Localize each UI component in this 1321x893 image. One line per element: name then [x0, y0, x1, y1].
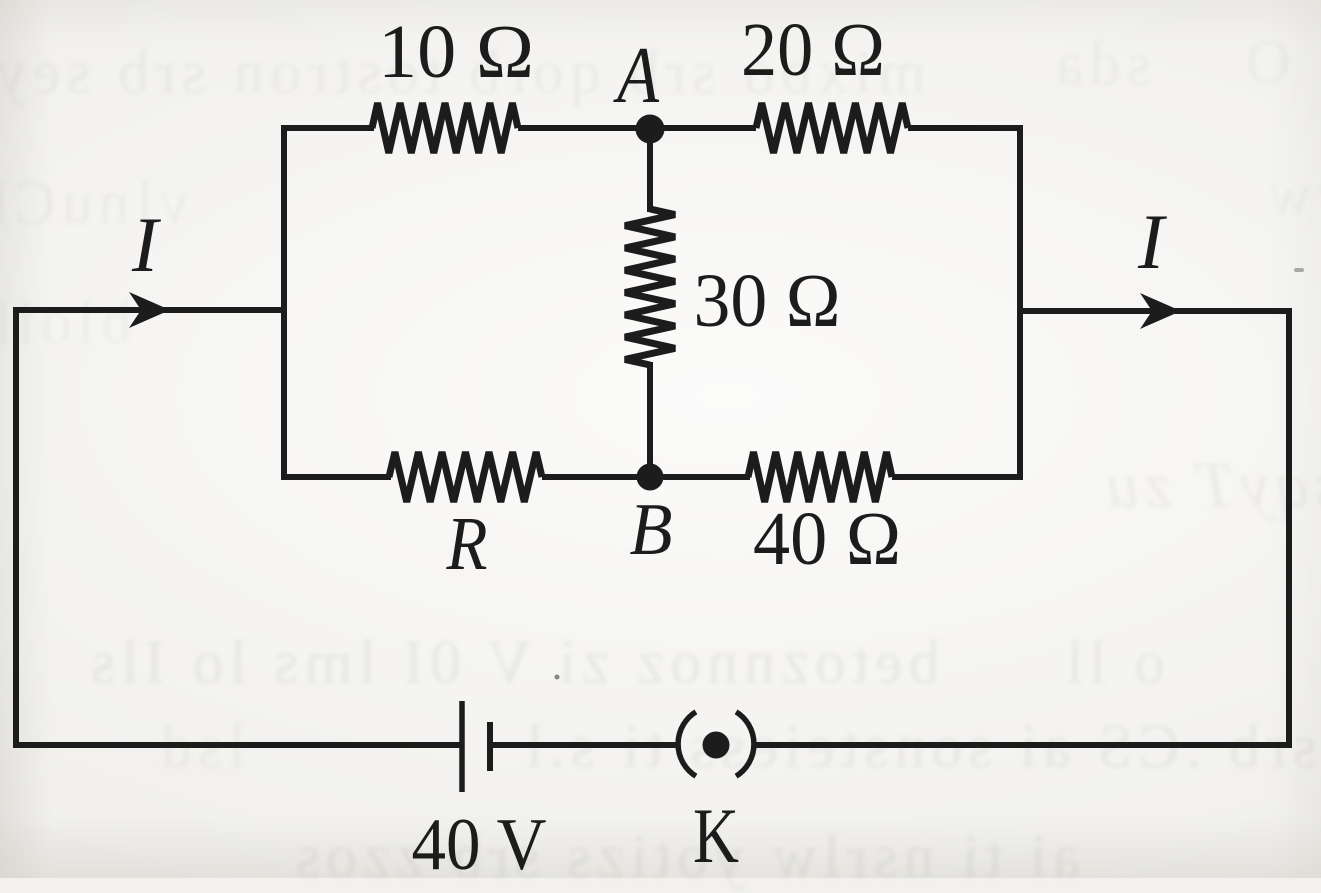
svg-text:40 Ω: 40 Ω: [753, 497, 901, 581]
wire: input lead (left horizontal): [13, 307, 284, 313]
svg-text:10 Ω: 10 Ω: [378, 10, 534, 94]
wire: bottom run, left corner to battery: [13, 742, 460, 748]
wire: battery to key: [490, 742, 680, 748]
svg-text:A: A: [613, 32, 660, 120]
wire: left inner vertical: [281, 125, 287, 480]
resistor 10 ohm: [372, 103, 518, 153]
wire: top-left segment: [281, 125, 374, 131]
svg-text:K: K: [693, 792, 739, 878]
svg-text:I: I: [131, 201, 162, 288]
svg-text:30 Ω: 30 Ω: [694, 259, 841, 343]
key K: left contact arc: [678, 712, 696, 776]
speck above battery (scan artifact, decorative): [555, 675, 560, 680]
wire: bottom branch middle segment: [542, 474, 750, 480]
key K: plug dot: [703, 732, 730, 759]
wire: bottom branch left segment: [281, 474, 391, 480]
svg-text:R: R: [446, 502, 488, 586]
svg-text:40 V: 40 V: [412, 804, 547, 878]
svg-text:B: B: [630, 489, 673, 571]
wire: top-right segment: [908, 125, 1023, 131]
wire: node A to 30 ohm: [647, 128, 653, 212]
battery 40V: long plate: [459, 701, 465, 792]
svg-text:20 Ω: 20 Ω: [741, 8, 885, 92]
wire: right inner vertical: [1017, 125, 1023, 480]
resistor R: [389, 452, 542, 502]
resistor 20 ohm: [756, 103, 908, 153]
resistor 30 ohm (vertical): [625, 209, 675, 365]
key K: right contact arc: [736, 712, 754, 776]
resistor 40 ohm: [748, 452, 892, 502]
wire: top-middle segment (10ohm to 20ohm through A): [518, 125, 756, 131]
current arrow I (left): [129, 292, 170, 328]
wire: left outer vertical: [13, 307, 19, 748]
node A junction dot: [636, 115, 665, 144]
wire: 30 ohm to node B: [647, 362, 653, 480]
current arrow I (right): [1140, 293, 1181, 329]
wire: right outer vertical: [1286, 308, 1292, 748]
wire: output lead (right horizontal): [1020, 308, 1292, 314]
svg-text:I: I: [1137, 198, 1168, 285]
node B junction dot: [637, 464, 664, 491]
battery 40V: short plate: [487, 722, 493, 771]
wire: bottom branch right segment: [892, 474, 1023, 480]
wire: key to bottom-right corner: [754, 742, 1292, 748]
